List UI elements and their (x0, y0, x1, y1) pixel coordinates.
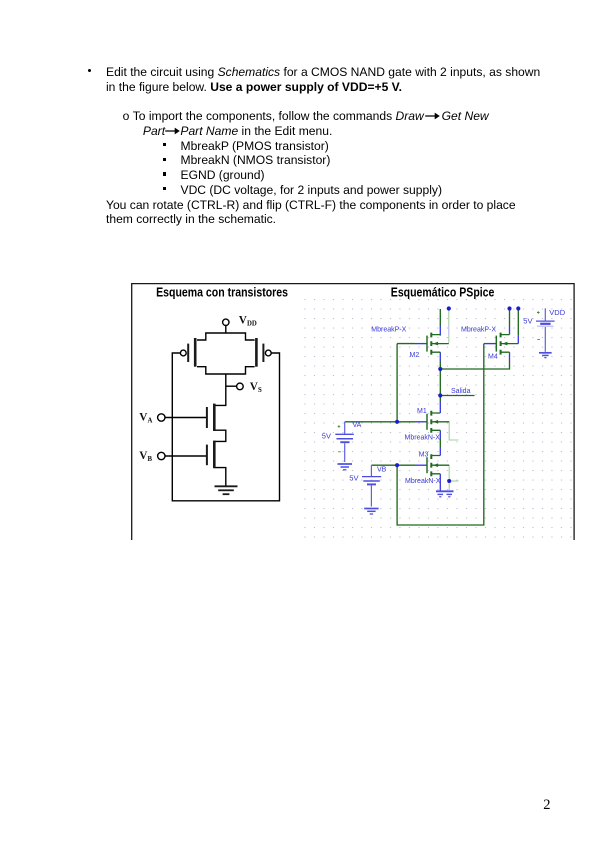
svg-text:M1: M1 (417, 408, 427, 415)
svg-text:5V: 5V (322, 431, 331, 440)
svg-text:M4: M4 (488, 353, 498, 360)
svg-text:MbreakP-X: MbreakP-X (371, 327, 406, 334)
svg-text:DD: DD (247, 320, 257, 327)
svg-text:VA: VA (353, 422, 362, 429)
svg-text:MbreakN-X: MbreakN-X (405, 434, 441, 441)
svg-text:5V: 5V (523, 317, 532, 326)
svg-text:B: B (148, 456, 153, 463)
svg-text:MbreakN-X: MbreakN-X (405, 478, 441, 485)
svg-text:A: A (148, 417, 153, 424)
svg-text:VDD: VDD (549, 308, 565, 317)
svg-text:MbreakP-X: MbreakP-X (461, 327, 496, 334)
svg-text:VB: VB (377, 467, 387, 474)
svg-text:S: S (258, 387, 262, 394)
svg-text:Esquema con transistores: Esquema con transistores (156, 284, 288, 299)
svg-text:Salida: Salida (451, 388, 471, 395)
svg-text:5V: 5V (349, 474, 358, 483)
svg-text:Esquemático PSpice: Esquemático PSpice (391, 285, 495, 300)
svg-text:M3: M3 (419, 451, 429, 458)
svg-text:M2: M2 (410, 352, 420, 359)
